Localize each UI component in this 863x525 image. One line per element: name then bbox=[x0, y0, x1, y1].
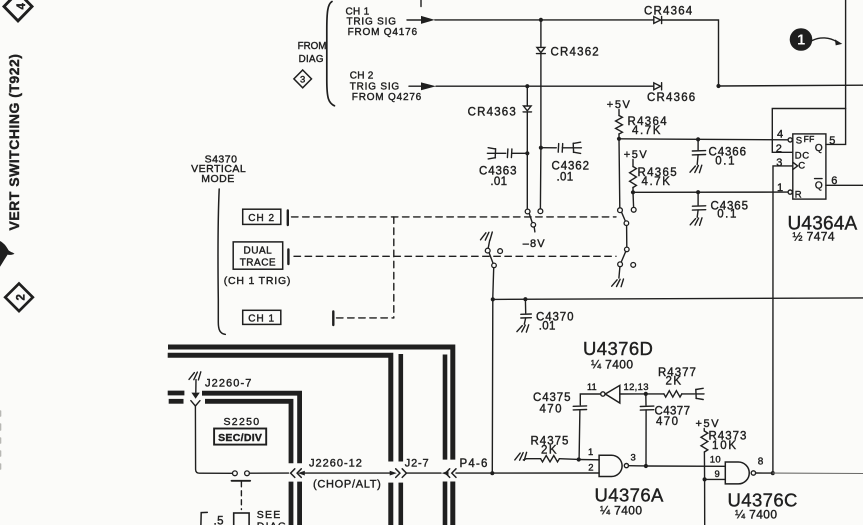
wire to U4376A pin1 bbox=[579, 459, 599, 461]
svg-text:SEE: SEE bbox=[257, 509, 282, 521]
svg-text:P4-6: P4-6 bbox=[460, 458, 489, 470]
ground (C4362) bbox=[573, 142, 581, 153]
svg-text:U4376A: U4376A bbox=[595, 485, 665, 506]
bus line 3 from J2260-7 with corner down to J2260-12 bbox=[202, 393, 300, 463]
see diag box bbox=[234, 513, 249, 525]
node junction pin8/FF clock riser bbox=[771, 471, 775, 475]
bracket at .5 bbox=[201, 512, 207, 525]
FF clock wedge bbox=[793, 162, 798, 169]
linkage dashed CH1 row bbox=[337, 317, 394, 319]
wire U4376A output pin3 bbox=[629, 465, 646, 467]
actuator tick CH1 bbox=[332, 312, 334, 326]
svg-text:4: 4 bbox=[777, 128, 783, 140]
wire CR4362 cathode down to C4362 node bbox=[540, 54, 542, 148]
bus line 4 inner with corner bbox=[205, 401, 291, 463]
CH1 signal arrow bbox=[407, 19, 421, 21]
node junction C4377 top bbox=[644, 392, 648, 396]
svg-text:Q: Q bbox=[815, 180, 823, 191]
bus line 1 (top) with corner down to P4-6 bbox=[168, 347, 453, 460]
node junction R4365 bottom bbox=[631, 190, 635, 194]
wire FF D feedback loop bbox=[772, 109, 845, 153]
ground (C4366) bbox=[690, 165, 702, 173]
wire CR4364 to corner down to CH2 line bbox=[662, 20, 719, 86]
resistor R4364 4.7K bbox=[618, 110, 620, 116]
capacitor C4365 0.1 bbox=[696, 190, 700, 194]
gate U4376A nand bbox=[599, 455, 622, 476]
capacitor C4375 470 bbox=[573, 405, 586, 407]
bus line 1 inner vertical bbox=[443, 355, 448, 460]
ground (C4370) bbox=[517, 325, 529, 332]
svg-text:(CHOP/ALT): (CHOP/ALT) bbox=[313, 479, 382, 491]
svg-text:CR4363: CR4363 bbox=[468, 107, 517, 119]
wire FF clock branch down bbox=[773, 166, 793, 473]
svg-text:DIAG: DIAG bbox=[257, 521, 287, 525]
node SEC/DIV box bbox=[214, 429, 266, 445]
svg-text:S2250: S2250 bbox=[224, 416, 261, 428]
svg-text:½ 7474: ½ 7474 bbox=[793, 230, 835, 244]
FF S input bubble pin4 bbox=[788, 138, 792, 142]
diamond marker 3 bbox=[294, 70, 312, 88]
svg-text:2: 2 bbox=[588, 463, 593, 474]
switch section 3 contacts bbox=[618, 207, 637, 246]
svg-text:SEC/DIV: SEC/DIV bbox=[218, 432, 262, 444]
svg-text:10: 10 bbox=[710, 455, 721, 466]
diode CR4362 bbox=[540, 20, 542, 48]
svg-text:CH 2: CH 2 bbox=[248, 213, 275, 224]
wire pin9 bbox=[705, 478, 726, 480]
svg-text:¼ 7400: ¼ 7400 bbox=[735, 508, 777, 522]
resistor R4375 2K bbox=[523, 459, 540, 460]
svg-text:1: 1 bbox=[588, 447, 593, 458]
wire to P4-6 bbox=[406, 472, 441, 474]
svg-text:S: S bbox=[796, 136, 802, 147]
svg-text:TRACE: TRACE bbox=[240, 258, 276, 269]
ground (R4377) bbox=[696, 388, 704, 399]
svg-text:5: 5 bbox=[829, 135, 835, 147]
wire CH1 trig to CR4364 bbox=[435, 19, 654, 21]
ground (J2260-7) bbox=[189, 372, 201, 380]
wire inverter output to C4375 bbox=[580, 394, 600, 405]
node junction CH1/CR4362 bbox=[539, 18, 543, 22]
linkage dashed to see-diag bbox=[240, 482, 242, 510]
svg-text:1: 1 bbox=[777, 182, 783, 194]
node junction R4373/pin9 bbox=[703, 477, 707, 481]
svg-text:J2260-12: J2260-12 bbox=[309, 457, 363, 469]
svg-text:9: 9 bbox=[715, 469, 720, 480]
wire CH2 trig to CR4366 bbox=[436, 85, 654, 87]
node CH 1 position box bbox=[243, 310, 281, 324]
bus line 2 with corner down to J2-7 bbox=[168, 355, 391, 461]
linkage dashed CH2 row bbox=[292, 216, 617, 218]
bus verticals resuming below connector row bbox=[289, 482, 294, 525]
svg-text:TRIG SIG: TRIG SIG bbox=[350, 81, 400, 92]
diode CR4363 bbox=[526, 86, 528, 106]
svg-text:1: 1 bbox=[797, 33, 805, 49]
diode CR4366 bbox=[654, 83, 662, 90]
wire trig bus to right edge bbox=[719, 84, 863, 87]
svg-text:2K: 2K bbox=[541, 444, 558, 456]
svg-text:FF: FF bbox=[804, 134, 815, 144]
node junction at CR4366 output bbox=[716, 84, 720, 88]
CH2 signal arrow bbox=[409, 85, 421, 87]
node junction R4364 bottom bbox=[617, 137, 621, 141]
node junction pin3/C4377 bbox=[644, 464, 648, 468]
svg-text:.01: .01 bbox=[490, 176, 507, 188]
wire CR4363 down to C4363 node and switch bbox=[526, 112, 528, 209]
svg-text:C4375: C4375 bbox=[533, 392, 571, 404]
switch section 2 (grounding, DUAL row) bbox=[481, 232, 503, 297]
svg-text:C: C bbox=[798, 160, 805, 171]
capacitor C4363 .01 bbox=[496, 152, 506, 154]
svg-text:Q: Q bbox=[815, 143, 823, 154]
wire between contacts and J2260-12 bbox=[249, 472, 288, 474]
svg-text:.01: .01 bbox=[557, 172, 574, 184]
resistor R4365 4.7K bbox=[632, 160, 634, 167]
wire R4365 node down to switch contact bbox=[632, 192, 635, 207]
ground (R4375) bbox=[515, 452, 527, 460]
linkage dashed vertical bbox=[393, 217, 395, 318]
svg-text:0.1: 0.1 bbox=[717, 208, 738, 220]
wire: FF Q feedback vertical to top edge bbox=[826, 0, 846, 144]
top edge tick bbox=[420, 0, 422, 7]
op IC U4364A 1/2 7474 flip-flop box bbox=[793, 134, 826, 199]
switch section 1 contacts (-8V feed) bbox=[525, 209, 543, 232]
linkage dashed DUAL row bbox=[294, 255, 616, 257]
diamond marker 4 (top left) bbox=[4, 0, 32, 21]
svg-text:470: 470 bbox=[656, 416, 679, 428]
bus stubs left of J2260-7 bbox=[168, 391, 185, 396]
svg-text:0.1: 0.1 bbox=[715, 155, 736, 167]
svg-text:3: 3 bbox=[631, 452, 636, 463]
svg-text:.01: .01 bbox=[539, 320, 556, 332]
switch linkage brace bbox=[218, 189, 225, 334]
wire pin8 to right edge bbox=[773, 472, 863, 474]
wire FF pin6 Qbar to right edge bbox=[826, 184, 863, 186]
svg-text:11: 11 bbox=[587, 382, 597, 392]
wire C4362 node down to switch contact bbox=[539, 148, 542, 209]
wire R4364 node to FF pin4 bbox=[619, 139, 788, 140]
svg-text:3: 3 bbox=[776, 157, 782, 169]
svg-text:–8V: –8V bbox=[523, 238, 546, 250]
actuator tick CH2 bbox=[287, 211, 289, 226]
wire R4373 net down off page bbox=[704, 479, 706, 525]
svg-text:2: 2 bbox=[16, 294, 28, 300]
svg-text:12,13: 12,13 bbox=[624, 382, 649, 393]
svg-text:FROM Q4276: FROM Q4276 bbox=[352, 92, 422, 103]
node junction pole to chop/alt bus bbox=[491, 297, 495, 301]
svg-text:(CH 1 TRIG): (CH 1 TRIG) bbox=[224, 275, 292, 287]
resistor R4377 2K bbox=[664, 391, 682, 397]
svg-text:8: 8 bbox=[758, 457, 764, 468]
svg-text:CR4366: CR4366 bbox=[647, 92, 696, 104]
ground (C4363) bbox=[487, 148, 495, 159]
svg-text:4.7K: 4.7K bbox=[642, 176, 672, 188]
connector break J2-7 bbox=[390, 469, 407, 478]
connector break J2260-12 bbox=[291, 469, 305, 478]
wire U4376C output pin8 bbox=[756, 472, 773, 474]
diamond marker 2 (left) bbox=[5, 284, 33, 312]
wire R4364 node down to switch contact bbox=[618, 139, 621, 208]
capacitor C4366 0.1 bbox=[696, 137, 700, 141]
svg-text:¼ 7400: ¼ 7400 bbox=[591, 358, 633, 372]
actuator tick DUAL TRACE bbox=[287, 250, 289, 265]
svg-text:470: 470 bbox=[540, 403, 563, 415]
wire pole node down to P4-6 row bbox=[491, 299, 494, 471]
svg-text:CH 1: CH 1 bbox=[248, 314, 275, 325]
node CH 2 position box bbox=[243, 209, 281, 224]
svg-text:3: 3 bbox=[300, 75, 305, 86]
node junction CH2/CR4363 bbox=[525, 84, 529, 88]
node junction P4-6 riser bbox=[490, 471, 494, 475]
svg-text:FROM: FROM bbox=[298, 41, 327, 52]
svg-text:CR4362: CR4362 bbox=[551, 47, 600, 59]
connector break P4-6 bbox=[442, 469, 456, 478]
wire P4-6 to U4376A pin2 bbox=[456, 472, 599, 474]
switch S2250 contacts bbox=[233, 471, 238, 476]
brace bracket for FROM DIAG bbox=[327, 2, 335, 106]
svg-text:CH 2: CH 2 bbox=[350, 71, 374, 82]
svg-text:J2-7: J2-7 bbox=[405, 458, 430, 470]
capacitor C4377 470 bbox=[645, 394, 647, 405]
diode CR4364 bbox=[654, 16, 662, 23]
svg-text:DIAG: DIAG bbox=[299, 54, 324, 65]
wire inverter input to R4377 bbox=[620, 393, 664, 395]
svg-text:4.7K: 4.7K bbox=[632, 125, 662, 137]
circled reference 1 with arrow bbox=[790, 28, 843, 51]
wire J2260-7 down to sec/div switch row bbox=[195, 406, 232, 473]
svg-text:10K: 10K bbox=[712, 440, 738, 452]
svg-text:.5: .5 bbox=[214, 515, 224, 525]
wire chop/alt between connectors bbox=[305, 472, 390, 474]
ground (C4365) bbox=[690, 218, 702, 226]
gate U4376D inverter (points left) bbox=[605, 385, 620, 403]
connector J2260-7 bbox=[191, 380, 200, 406]
wire chop/alt horizontal to right edge bbox=[493, 298, 863, 300]
faint cut-off text marks at left edge bbox=[0, 411, 2, 469]
black arrow glyph at left edge bbox=[0, 241, 15, 267]
svg-text:CR4364: CR4364 bbox=[644, 5, 693, 17]
svg-text:TRIG SIG: TRIG SIG bbox=[347, 16, 397, 27]
svg-text:+5V: +5V bbox=[696, 418, 721, 430]
bus line 2 inner vertical bbox=[398, 354, 403, 462]
svg-text:U4376D: U4376D bbox=[583, 338, 653, 359]
gate U4376C nand bbox=[725, 462, 749, 484]
capacitor C4370 .01 bbox=[523, 297, 527, 301]
svg-text:4: 4 bbox=[16, 3, 28, 10]
svg-text:2: 2 bbox=[776, 143, 782, 155]
wire R4365 node to FF pin1 bbox=[633, 191, 788, 193]
svg-text:MODE: MODE bbox=[201, 173, 235, 185]
svg-text:+5V: +5V bbox=[624, 149, 649, 161]
node DUAL TRACE position box bbox=[233, 242, 283, 269]
node junction R4375/C4375 bbox=[577, 457, 581, 461]
FF R input bubble pin1 bbox=[788, 190, 792, 194]
svg-text:VERT SWITCHING (T922): VERT SWITCHING (T922) bbox=[6, 54, 22, 231]
svg-text:DUAL: DUAL bbox=[244, 246, 273, 257]
svg-text:J2260-7: J2260-7 bbox=[205, 378, 252, 390]
svg-text:FROM Q4176: FROM Q4176 bbox=[348, 27, 418, 38]
wire pin3 node to U4376C pin10 bbox=[646, 465, 725, 467]
switch section 4 contacts (ground) bbox=[612, 247, 636, 287]
svg-text:2K: 2K bbox=[666, 376, 683, 388]
capacitor C4362 .01 bbox=[539, 146, 543, 150]
resistor R4373 10K bbox=[703, 429, 705, 432]
svg-text:R: R bbox=[795, 189, 802, 200]
svg-text:¼ 7400: ¼ 7400 bbox=[600, 504, 642, 518]
S2250 actuator bar bbox=[232, 480, 251, 482]
